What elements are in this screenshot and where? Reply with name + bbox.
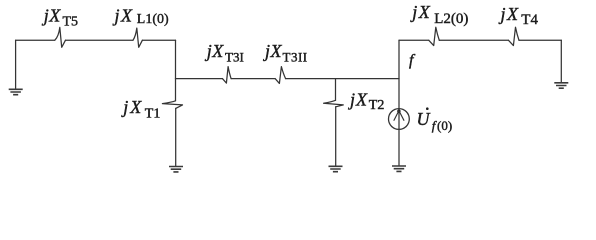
wire between XT5 and XL1: [66, 39, 134, 41]
reactance symbol jXT3I: [222, 67, 231, 84]
svg-text:T3I: T3I: [225, 50, 244, 65]
ground under T2: [329, 166, 343, 171]
svg-text:T2: T2: [369, 98, 385, 113]
voltage source circle Uf(0): [389, 109, 410, 130]
reactance symbol jXT4: [509, 27, 520, 45]
wire right vertical: [560, 40, 562, 82]
reactance symbol jXT1: [162, 101, 182, 109]
ground left: [9, 89, 23, 94]
wire XT4 to right corner: [519, 39, 561, 41]
wire node f vertical through source: [398, 40, 400, 165]
ground under T1: [169, 167, 183, 172]
svg-text:jX: jX: [348, 90, 368, 110]
reactance symbol jXT3II: [275, 67, 286, 84]
svg-text:jX: jX: [410, 2, 431, 22]
wire middle horizontal segment 1: [176, 78, 223, 80]
svg-text:(0): (0): [437, 118, 452, 133]
ground right: [554, 83, 568, 88]
svg-text:jX: jX: [121, 97, 143, 117]
wire left vertical: [15, 40, 17, 89]
svg-text:jX: jX: [205, 41, 225, 61]
wire T2 vertical upper: [335, 79, 337, 101]
svg-text:f: f: [409, 52, 416, 69]
wire T1 vertical upper: [175, 40, 177, 101]
wire top-right horizontal segment 1: [399, 39, 429, 41]
reactance symbol jXL2(0): [429, 27, 440, 45]
arrow inside source: [397, 110, 400, 113]
reactance symbol jXT2: [324, 100, 344, 107]
svg-text:T3II: T3II: [283, 50, 308, 65]
ground under source: [392, 166, 406, 171]
svg-text:T5: T5: [63, 15, 79, 30]
svg-text:jX: jX: [42, 6, 62, 26]
svg-text:T1: T1: [145, 107, 161, 122]
svg-text:jX: jX: [263, 41, 283, 61]
wire T2 vertical lower: [335, 107, 337, 166]
svg-text:jX: jX: [499, 4, 520, 24]
svg-text:L2(0): L2(0): [434, 11, 468, 27]
svg-text:T4: T4: [521, 12, 538, 28]
wire top-left horizontal segment 1: [16, 39, 55, 41]
svg-text:U: U: [417, 109, 431, 129]
wire XT3II to node f: [286, 78, 399, 80]
wire XL1 to T1 corner: [142, 39, 175, 41]
wire between XL2 and XT4: [439, 39, 508, 41]
reactance symbol jXL1(0): [133, 28, 142, 47]
svg-text:jX: jX: [113, 6, 134, 26]
wire T1 vertical lower: [175, 108, 177, 166]
wire between XT3I and XT3II: [231, 78, 275, 80]
svg-text:L1(0): L1(0): [137, 12, 169, 27]
reactance symbol jXT5: [55, 27, 66, 47]
